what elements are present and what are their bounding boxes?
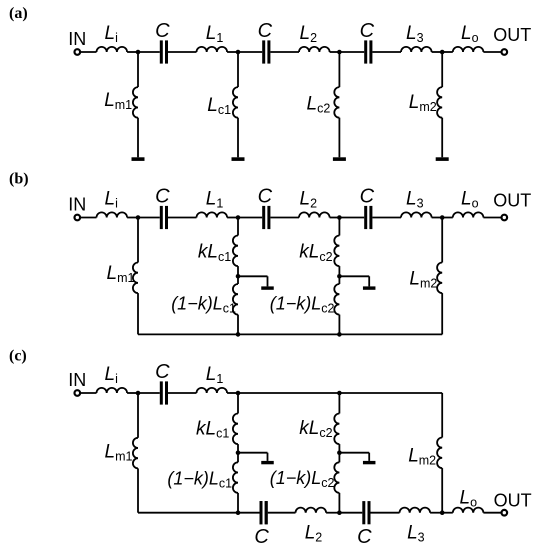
- svg-text:Li: Li: [105, 23, 118, 45]
- svg-text:kLc1: kLc1: [198, 242, 231, 264]
- svg-text:Lc1: Lc1: [207, 95, 231, 117]
- svg-text:Li: Li: [105, 364, 118, 386]
- svg-text:C: C: [155, 186, 170, 208]
- svg-text:IN: IN: [68, 370, 86, 390]
- svg-text:OUT: OUT: [493, 191, 531, 211]
- svg-text:(1−k)Lc2: (1−k)Lc2: [270, 293, 335, 315]
- svg-text:L3: L3: [406, 23, 424, 45]
- svg-text:Lm2: Lm2: [409, 92, 437, 114]
- svg-text:Lo: Lo: [461, 23, 479, 45]
- svg-text:(b): (b): [9, 171, 29, 188]
- svg-text:(1−k)Lc2: (1−k)Lc2: [270, 468, 335, 490]
- svg-text:kLc1: kLc1: [196, 418, 229, 440]
- svg-text:IN: IN: [68, 29, 86, 49]
- svg-text:L1: L1: [206, 23, 224, 45]
- svg-text:(1−k)Lc1: (1−k)Lc1: [171, 293, 236, 315]
- svg-text:C: C: [254, 526, 269, 548]
- svg-text:Li: Li: [105, 189, 118, 211]
- svg-text:L2: L2: [300, 189, 318, 211]
- svg-text:IN: IN: [68, 195, 86, 215]
- svg-text:C: C: [357, 526, 372, 548]
- svg-text:C: C: [155, 20, 170, 42]
- svg-text:L3: L3: [406, 189, 424, 211]
- svg-text:C: C: [360, 186, 375, 208]
- svg-text:(a): (a): [9, 5, 28, 22]
- svg-text:C: C: [360, 20, 375, 42]
- svg-text:C: C: [258, 186, 273, 208]
- svg-text:L1: L1: [206, 364, 224, 386]
- svg-text:L1: L1: [206, 189, 224, 211]
- svg-text:C: C: [258, 20, 273, 42]
- svg-text:Lm1: Lm1: [104, 90, 132, 112]
- svg-text:Lo: Lo: [461, 189, 479, 211]
- svg-text:OUT: OUT: [493, 25, 531, 45]
- svg-text:Lm1: Lm1: [105, 442, 133, 464]
- svg-text:(1−k)Lc1: (1−k)Lc1: [167, 468, 232, 490]
- svg-text:L2: L2: [305, 523, 323, 545]
- svg-text:Lm1: Lm1: [107, 263, 135, 285]
- svg-text:Lc2: Lc2: [307, 94, 331, 116]
- svg-text:Lm2: Lm2: [408, 446, 436, 468]
- svg-text:(c): (c): [9, 348, 27, 365]
- svg-text:kLc2: kLc2: [299, 242, 332, 264]
- svg-text:Lm2: Lm2: [409, 269, 437, 291]
- svg-text:L3: L3: [407, 523, 425, 545]
- svg-text:L2: L2: [300, 23, 318, 45]
- svg-text:kLc2: kLc2: [299, 418, 332, 440]
- svg-text:OUT: OUT: [494, 491, 532, 511]
- svg-text:C: C: [155, 361, 170, 383]
- svg-text:Lo: Lo: [460, 488, 478, 510]
